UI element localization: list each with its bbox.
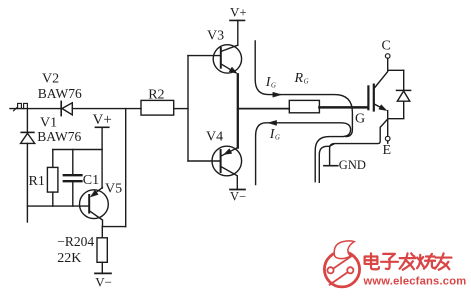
wire output node vertical bbox=[237, 74, 239, 147]
wire below V1 bbox=[26, 143, 28, 222]
watermark logo elecfans bbox=[324, 241, 359, 287]
resistor RG bbox=[289, 100, 319, 112]
svg-text:C: C bbox=[382, 39, 391, 54]
wire input with pulse source symbol bbox=[10, 103, 61, 110]
svg-text:www.elecfans.com: www.elecfans.com bbox=[363, 276, 467, 288]
node A vertical from input junction bbox=[26, 109, 28, 133]
wire V+ rail over R1 C1 bbox=[53, 149, 102, 151]
wire E terminal stub bbox=[387, 141, 389, 143]
wire GND branch bbox=[330, 144, 334, 166]
svg-text:BAW76: BAW76 bbox=[38, 86, 82, 101]
power V- middle bbox=[230, 189, 245, 191]
terminal E bbox=[385, 136, 390, 141]
current loop lower IG with hairpin bbox=[256, 120, 351, 184]
svg-text:V3: V3 bbox=[207, 29, 224, 44]
wire to V3 base bbox=[188, 55, 221, 57]
transistor V4 bbox=[212, 146, 242, 189]
wire collector to diode bbox=[388, 69, 404, 71]
svg-text:IG: IG bbox=[269, 127, 280, 142]
svg-text:RG: RG bbox=[294, 71, 309, 86]
watermark text 电子发烧友 (drawn as vector strokes) bbox=[365, 253, 452, 269]
wire V5 collector to main line bbox=[103, 109, 126, 227]
power V+ top bbox=[230, 20, 245, 45]
resistor R204 bbox=[97, 227, 107, 274]
current loop upper IG bbox=[255, 41, 352, 137]
svg-text:G: G bbox=[355, 112, 365, 127]
svg-text:V5: V5 bbox=[105, 182, 122, 197]
svg-text:V2: V2 bbox=[42, 72, 59, 87]
svg-text:V+: V+ bbox=[93, 112, 112, 128]
svg-text:22K: 22K bbox=[57, 251, 81, 266]
svg-text:R1: R1 bbox=[29, 174, 45, 189]
svg-text:V4: V4 bbox=[206, 130, 223, 145]
svg-text:IG: IG bbox=[265, 75, 276, 90]
svg-text:R2: R2 bbox=[148, 88, 164, 103]
svg-text:BAW76: BAW76 bbox=[37, 129, 81, 144]
svg-text:C1: C1 bbox=[83, 173, 99, 188]
resistor R2 bbox=[141, 100, 188, 115]
svg-text:GND: GND bbox=[339, 158, 366, 172]
wire bases vertical bbox=[187, 56, 189, 161]
diode V2 bbox=[61, 101, 72, 115]
wire emitter return into bundle bbox=[319, 119, 387, 182]
resistor R1 bbox=[47, 150, 58, 207]
wire RG to gate (thick) bbox=[319, 106, 368, 109]
diode VD freewheel bbox=[388, 70, 411, 118]
diode V1 bbox=[21, 132, 35, 143]
svg-text:−R204: −R204 bbox=[57, 234, 94, 249]
wire output to RG bbox=[238, 108, 289, 110]
transistor V3 bbox=[213, 45, 241, 74]
power V+ left bbox=[95, 127, 108, 188]
power V- left bbox=[95, 272, 111, 274]
transistor V5 bbox=[80, 188, 109, 227]
ground GND tick bbox=[324, 165, 338, 167]
IGBT U1 bbox=[368, 58, 387, 136]
svg-text:V−: V− bbox=[230, 190, 246, 204]
wire V2 to R2 bbox=[72, 108, 141, 110]
svg-text:E: E bbox=[383, 143, 392, 158]
wire to V4 base bbox=[188, 160, 221, 162]
wire base line of V5 bbox=[27, 205, 89, 207]
svg-text:V−: V− bbox=[95, 275, 112, 290]
svg-text:V+: V+ bbox=[230, 5, 247, 20]
capacitor C1 bbox=[64, 150, 82, 207]
terminal C bbox=[385, 54, 390, 59]
